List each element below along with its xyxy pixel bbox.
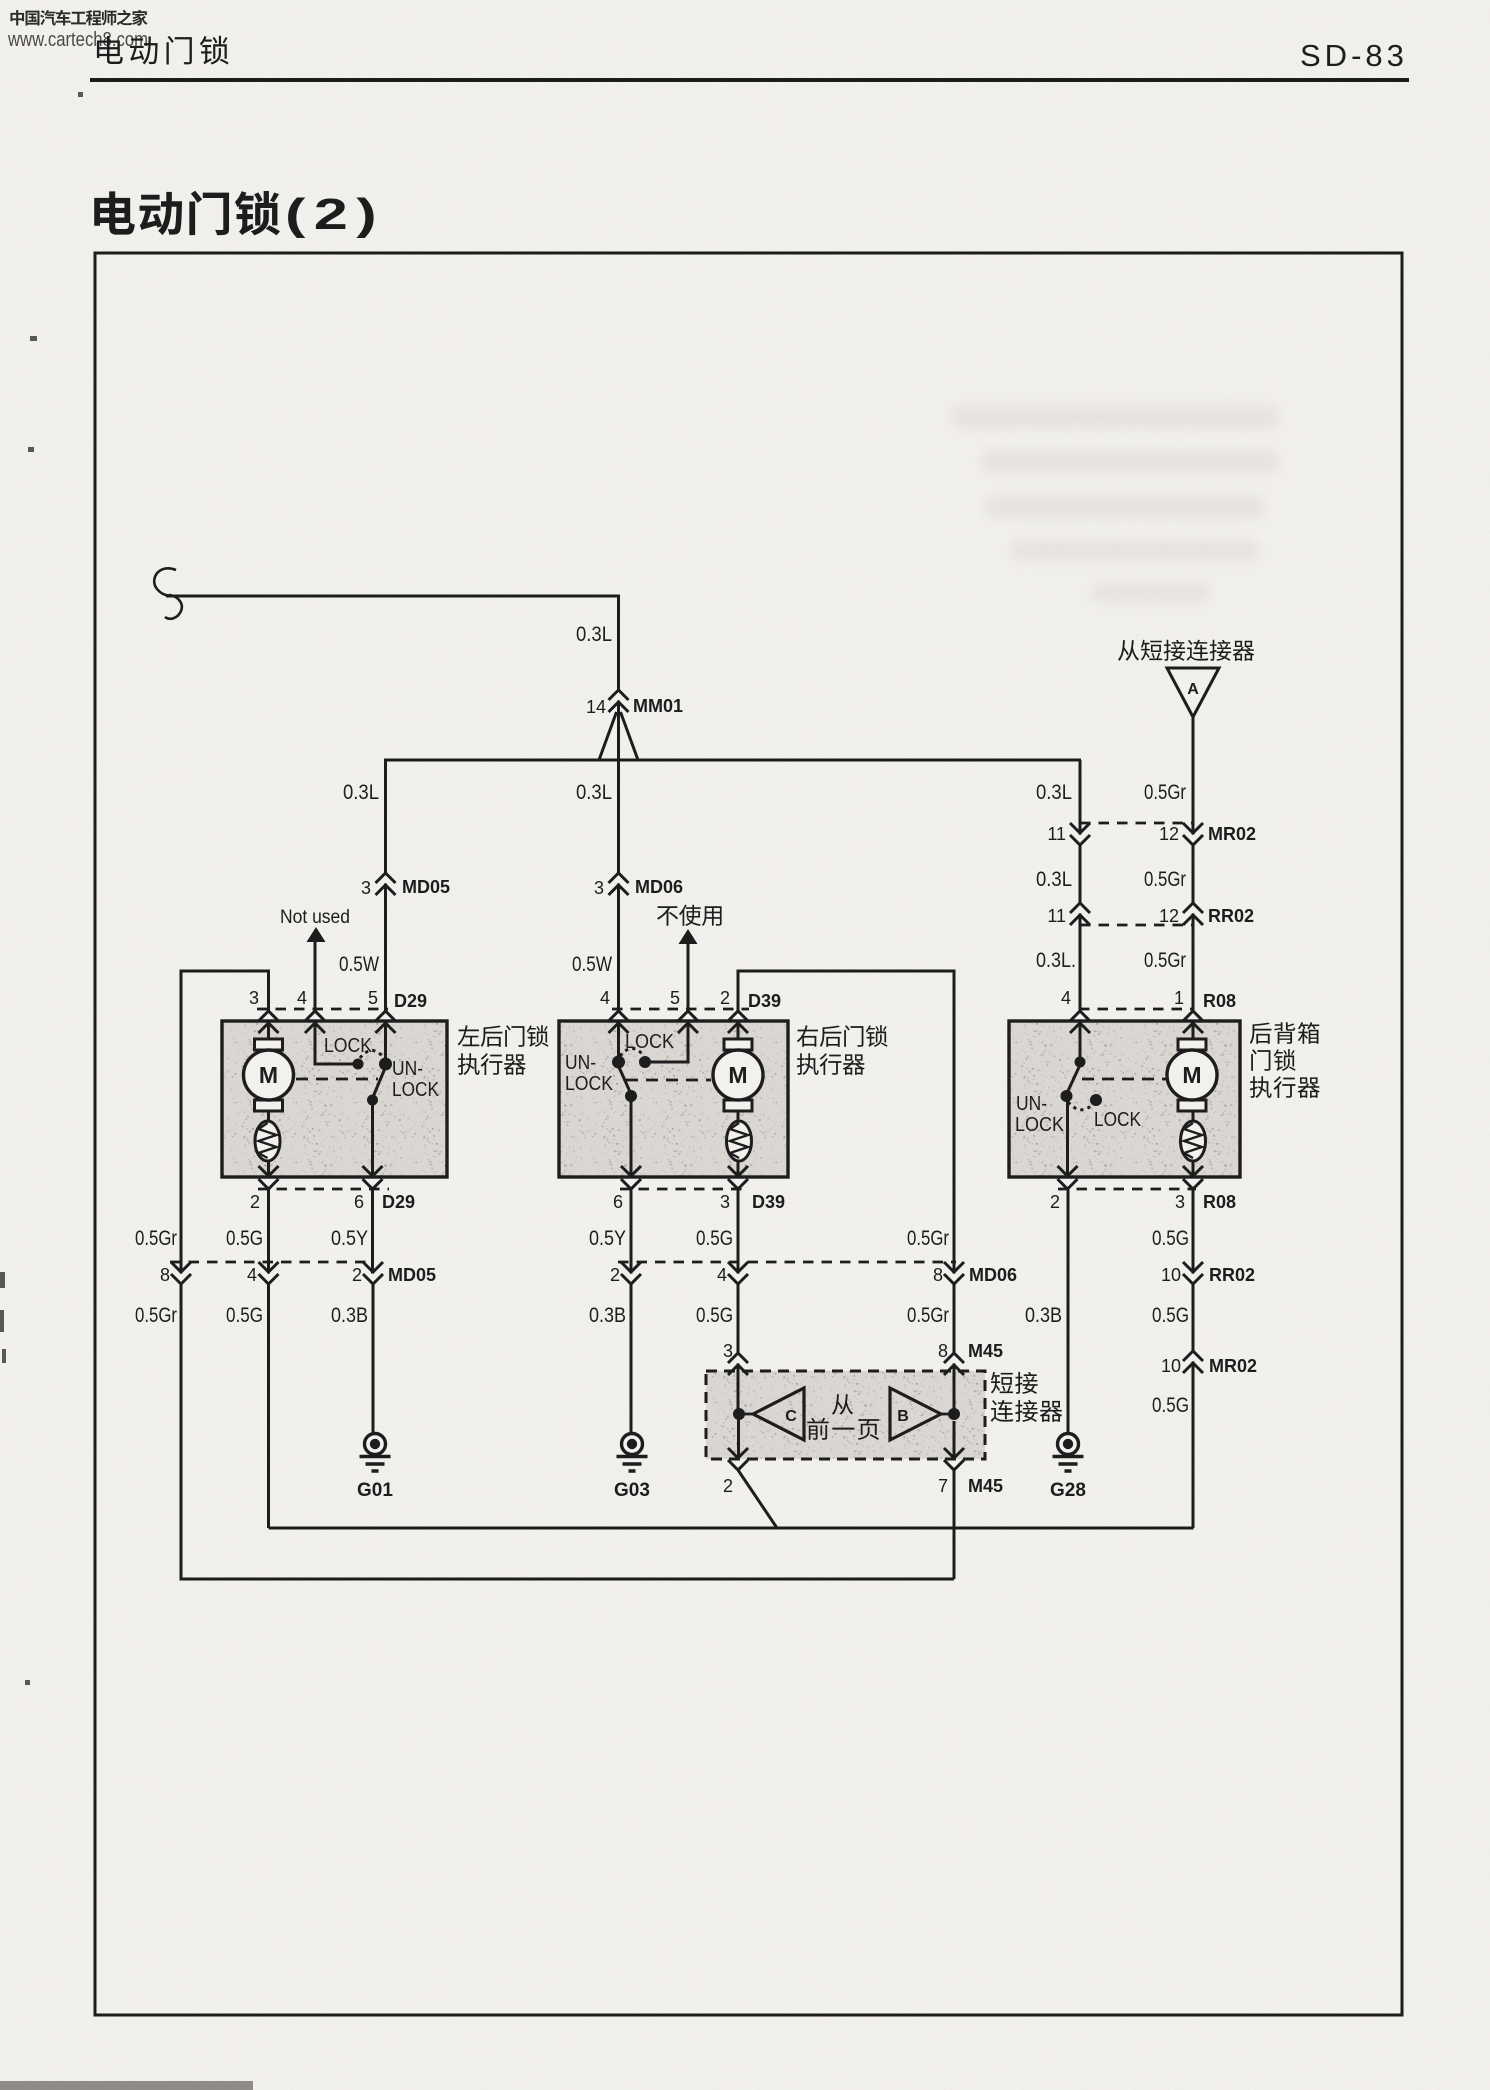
svg-text:7: 7 xyxy=(938,1476,948,1496)
label 执行器 xyxy=(458,1053,526,1075)
connector RR02 pin 10 xyxy=(1161,1262,1255,1285)
node: M45 right junction xyxy=(948,1408,960,1420)
svg-text:4: 4 xyxy=(717,1265,727,1285)
connector MM01 chevrons xyxy=(609,690,629,712)
svg-text:1: 1 xyxy=(1174,988,1184,1008)
actuator box shaded fills xyxy=(222,1021,447,1177)
watermark line 1 xyxy=(10,10,147,26)
svg-text:MD06: MD06 xyxy=(635,877,683,897)
svg-text:4: 4 xyxy=(247,1265,257,1285)
不使用 label and arrow xyxy=(657,905,722,926)
svg-text:0.5Gr: 0.5Gr xyxy=(1144,868,1186,891)
wire: left switch lever to pin6 then MD05 pin2 to ground G01 xyxy=(371,1100,375,1433)
svg-text:SD-83: SD-83 xyxy=(1300,38,1408,73)
page header title xyxy=(97,36,229,65)
svg-text:4: 4 xyxy=(600,988,610,1008)
svg-text:2: 2 xyxy=(250,1192,260,1212)
label 短接 xyxy=(991,1372,1038,1394)
node: M45 left junction xyxy=(733,1408,745,1420)
wire: M45 pin2 from junction down xyxy=(737,1414,740,1459)
connector MM01 fork to bus xyxy=(599,712,638,760)
svg-text:0.5W: 0.5W xyxy=(339,953,379,976)
diagram frame xyxy=(95,253,1402,2015)
wire: Not used stem and pin4 into LOCK contact xyxy=(315,941,353,1064)
svg-text:0.5Gr: 0.5Gr xyxy=(907,1304,949,1327)
ground G28 xyxy=(1050,1434,1086,1502)
svg-text:3: 3 xyxy=(361,878,371,898)
connector R08 top row pins 4,1 xyxy=(1061,988,1236,1033)
label 从 xyxy=(832,1394,853,1415)
wire: left box pin3 up over to left outer column, down to bottom bus2, right to M45 pin7 xyxy=(181,971,954,1579)
svg-text:M: M xyxy=(1182,1062,1201,1088)
svg-text:MD06: MD06 xyxy=(969,1265,1017,1285)
wire: left branch bus to D29 pin5/pivot xyxy=(384,760,387,1064)
switch dotted arc mid box xyxy=(620,1049,644,1057)
switch dotted arc left box xyxy=(360,1051,384,1059)
wire: right branch bus down through MR02/RR02/R08 pin4 to switch pivot xyxy=(1079,760,1082,1062)
wire: mid box pin2 up, over, down right side of box through MD06 pin8 to M45 pin8 xyxy=(738,971,954,1414)
svg-text:0.5G: 0.5G xyxy=(1152,1394,1189,1417)
scanner edge artifacts xyxy=(0,92,83,1685)
svg-text:LOCK: LOCK xyxy=(324,1035,373,1057)
svg-text:0.5Gr: 0.5Gr xyxy=(907,1227,949,1250)
svg-text:0.5Gr: 0.5Gr xyxy=(1144,949,1186,972)
svg-text:MD05: MD05 xyxy=(388,1265,436,1285)
label 连接器 xyxy=(991,1400,1063,1422)
svg-text:UN-: UN- xyxy=(565,1052,596,1074)
connector MD06 pins 2,4,8 xyxy=(610,1262,1017,1285)
wire gaps at connectors xyxy=(178,692,1195,1469)
svg-text:G01: G01 xyxy=(357,1480,393,1501)
connector D39 bottom row pins 6,3 xyxy=(613,1166,785,1212)
svg-text:RR02: RR02 xyxy=(1209,1265,1255,1285)
label 左后门锁 xyxy=(458,1025,549,1047)
svg-text:M: M xyxy=(728,1062,747,1088)
svg-text:11: 11 xyxy=(1047,906,1066,926)
svg-text:UN-: UN- xyxy=(392,1058,423,1080)
wire: M45 pin7 column xyxy=(953,1421,956,1579)
svg-text:RR02: RR02 xyxy=(1208,906,1254,926)
svg-text:4: 4 xyxy=(1061,988,1071,1008)
svg-text:0.5Gr: 0.5Gr xyxy=(135,1304,177,1327)
svg-text:LOCK: LOCK xyxy=(1094,1109,1142,1131)
label 从短接连接器 xyxy=(1118,640,1254,661)
svg-text:A: A xyxy=(1187,681,1199,698)
svg-text:MR02: MR02 xyxy=(1208,824,1256,844)
connector D39 top row pins 4,5,2 xyxy=(600,988,781,1033)
thermistor left actuator xyxy=(255,1121,280,1161)
svg-text:G28: G28 xyxy=(1050,1480,1086,1501)
jumper connector M45 box xyxy=(706,1371,985,1459)
label 后背箱 xyxy=(1250,1022,1320,1044)
svg-text:6: 6 xyxy=(354,1192,364,1212)
svg-text:8: 8 xyxy=(933,1265,943,1285)
M45 bottom pins 2,7 xyxy=(723,1448,1003,1496)
switch contact node (LOCK) right box xyxy=(1090,1094,1102,1106)
label 执行器 xyxy=(1250,1076,1320,1098)
wire: left box motor column (pin3-motor-thermistor-pin2) down to bus1 xyxy=(267,1009,270,1528)
svg-text:0.3B: 0.3B xyxy=(1025,1304,1062,1327)
off-page triangle A (from jumper connector) xyxy=(1167,668,1219,717)
connector MD05 pin3 chevrons xyxy=(376,873,396,895)
svg-text:0.5Gr: 0.5Gr xyxy=(135,1227,177,1250)
svg-text:8: 8 xyxy=(160,1265,170,1285)
wire: mid switch lever to pin6, down to ground G03 xyxy=(630,1096,633,1433)
svg-text:MD05: MD05 xyxy=(402,877,450,897)
wire: mid box LOCK contact to pin5 xyxy=(650,1021,688,1062)
switch lever right box xyxy=(1068,1065,1081,1092)
svg-text:UN-: UN- xyxy=(1016,1093,1047,1115)
svg-text:2: 2 xyxy=(1050,1192,1060,1212)
svg-text:G03: G03 xyxy=(614,1480,650,1501)
svg-text:0.3L: 0.3L xyxy=(576,623,612,646)
thermistor mid actuator xyxy=(727,1121,752,1161)
svg-text:2: 2 xyxy=(720,988,730,1008)
svg-text:R08: R08 xyxy=(1203,991,1236,1011)
dashed centre line left box xyxy=(296,1078,378,1081)
svg-text:11: 11 xyxy=(1047,824,1066,844)
svg-text:M45: M45 xyxy=(968,1476,1003,1496)
connector MD06 pin3 chevrons xyxy=(609,873,629,895)
svg-text:LOCK: LOCK xyxy=(392,1079,440,1101)
connector MR02 pins 11,12 xyxy=(1047,823,1256,845)
left rear door lock actuator box xyxy=(222,1021,447,1177)
svg-text:0.3L: 0.3L xyxy=(576,781,612,804)
main title xyxy=(94,191,280,236)
wire: from A triangle down through MR02/RR02/R08 pin1, motor, to bus at bottom right xyxy=(1192,717,1195,1528)
triangle B (to previous page) xyxy=(890,1388,941,1440)
label 执行器 xyxy=(797,1053,865,1075)
connector R08 bottom row pins 2,3 xyxy=(1050,1166,1236,1212)
svg-text:www.cartech8.com: www.cartech8.com xyxy=(7,29,148,51)
label 前一页 xyxy=(807,1418,879,1440)
ground G03 xyxy=(614,1434,650,1502)
wire: feed from squiggle to MM01 and down mid branch xyxy=(166,596,619,1062)
svg-text:3: 3 xyxy=(723,1341,733,1361)
triangle C (to previous page) xyxy=(753,1388,804,1440)
wire: mid box motor column pin2-motor-thermistor-pin3, down to M45 pin3 dot xyxy=(737,1021,740,1414)
wire: M45 pin2 diagonal to bus1 xyxy=(738,1470,777,1528)
svg-text:0.5G: 0.5G xyxy=(696,1304,733,1327)
motor M right actuator xyxy=(1167,1039,1217,1111)
svg-text:0.3L.: 0.3L. xyxy=(1036,949,1076,972)
svg-text:0.5Gr: 0.5Gr xyxy=(1144,781,1186,804)
svg-text:0.5W: 0.5W xyxy=(572,953,612,976)
thermistor right actuator xyxy=(1181,1121,1206,1161)
switch lever mid box xyxy=(619,1066,631,1093)
svg-text:4: 4 xyxy=(297,988,307,1008)
svg-text:0.5G: 0.5G xyxy=(226,1304,263,1327)
svg-text:C: C xyxy=(785,1408,797,1425)
svg-text:0.5G: 0.5G xyxy=(1152,1304,1189,1327)
svg-text:6: 6 xyxy=(613,1192,623,1212)
switch contact node (LOCK) left box xyxy=(353,1059,364,1070)
svg-text:MM01: MM01 xyxy=(633,696,683,716)
jumper connector M45 shaded fill xyxy=(706,1371,985,1459)
connector D29 bottom row pins 2,6 xyxy=(250,1166,415,1212)
switch pivot node left box xyxy=(379,1058,392,1071)
svg-text:5: 5 xyxy=(670,988,680,1008)
svg-text:MR02: MR02 xyxy=(1209,1356,1257,1376)
svg-text:D39: D39 xyxy=(752,1192,785,1212)
svg-text:2: 2 xyxy=(610,1265,620,1285)
svg-text:10: 10 xyxy=(1161,1265,1181,1285)
svg-text:3: 3 xyxy=(249,988,259,1008)
svg-text:(2): (2) xyxy=(285,190,385,239)
ground G01 xyxy=(357,1434,393,1502)
svg-text:Not used: Not used xyxy=(280,907,350,928)
dashed centre line mid box xyxy=(626,1079,711,1082)
svg-text:0.3B: 0.3B xyxy=(331,1304,368,1327)
label 门锁 xyxy=(1251,1049,1295,1071)
connector MR02 pin 10 xyxy=(1161,1351,1257,1376)
M45 top pins 3,8 xyxy=(723,1341,1003,1375)
svg-text:2: 2 xyxy=(723,1476,733,1496)
switch pivot node mid box xyxy=(612,1056,625,1069)
trunk lid lock actuator box xyxy=(1009,1021,1240,1177)
switch lever left box xyxy=(373,1067,386,1097)
switch dotted arc right box xyxy=(1068,1102,1094,1110)
switch pivot node right box xyxy=(1075,1057,1086,1068)
svg-text:8: 8 xyxy=(938,1341,948,1361)
right rear door lock actuator box xyxy=(559,1021,788,1177)
svg-text:0.3L: 0.3L xyxy=(343,781,379,804)
svg-text:12: 12 xyxy=(1159,906,1179,926)
svg-text:LOCK: LOCK xyxy=(565,1073,614,1095)
svg-text:R08: R08 xyxy=(1203,1192,1236,1212)
svg-text:14: 14 xyxy=(586,697,606,717)
connector RR02 pins 11,12 xyxy=(1047,903,1254,926)
svg-text:B: B xyxy=(897,1408,909,1425)
svg-text:0.5G: 0.5G xyxy=(226,1227,263,1250)
motor M mid actuator xyxy=(713,1039,763,1111)
motor M left actuator xyxy=(244,1039,294,1111)
svg-text:0.3L: 0.3L xyxy=(1036,868,1072,891)
svg-text:12: 12 xyxy=(1159,824,1179,844)
svg-text:M45: M45 xyxy=(968,1341,1003,1361)
dashed centre line right box xyxy=(1082,1078,1166,1081)
svg-text:10: 10 xyxy=(1161,1356,1181,1376)
wire: right box switch to pin2 down to ground G28 xyxy=(1066,1096,1070,1433)
svg-text:D39: D39 xyxy=(748,991,781,1011)
label 右后门锁 xyxy=(797,1025,888,1047)
connector D29 top row pins 3,4,5 xyxy=(249,988,427,1033)
svg-text:LOCK: LOCK xyxy=(1015,1114,1065,1136)
bus1 wire xyxy=(269,1527,1194,1530)
svg-text:D29: D29 xyxy=(382,1192,415,1212)
svg-text:3: 3 xyxy=(720,1192,730,1212)
wire break squiggle xyxy=(154,568,182,619)
wire: 不使用 stem xyxy=(687,943,690,1009)
svg-text:0.5G: 0.5G xyxy=(696,1227,733,1250)
svg-text:2: 2 xyxy=(352,1265,362,1285)
header rule xyxy=(90,78,1409,82)
connector MD05 pins 8,4,2 xyxy=(160,1262,436,1285)
svg-text:3: 3 xyxy=(1175,1192,1185,1212)
bus wire below MM01 xyxy=(384,759,1081,762)
svg-text:5: 5 xyxy=(368,988,378,1008)
svg-text:0.3L: 0.3L xyxy=(1036,781,1072,804)
svg-text:M: M xyxy=(259,1062,278,1088)
svg-text:0.3B: 0.3B xyxy=(589,1304,626,1327)
svg-text:0.5G: 0.5G xyxy=(1152,1227,1189,1250)
svg-text:0.5Y: 0.5Y xyxy=(331,1227,368,1250)
switch contact node (LOCK) mid box xyxy=(639,1056,651,1068)
svg-text:D29: D29 xyxy=(394,991,427,1011)
svg-text:3: 3 xyxy=(594,878,604,898)
svg-text:0.5Y: 0.5Y xyxy=(589,1227,626,1250)
